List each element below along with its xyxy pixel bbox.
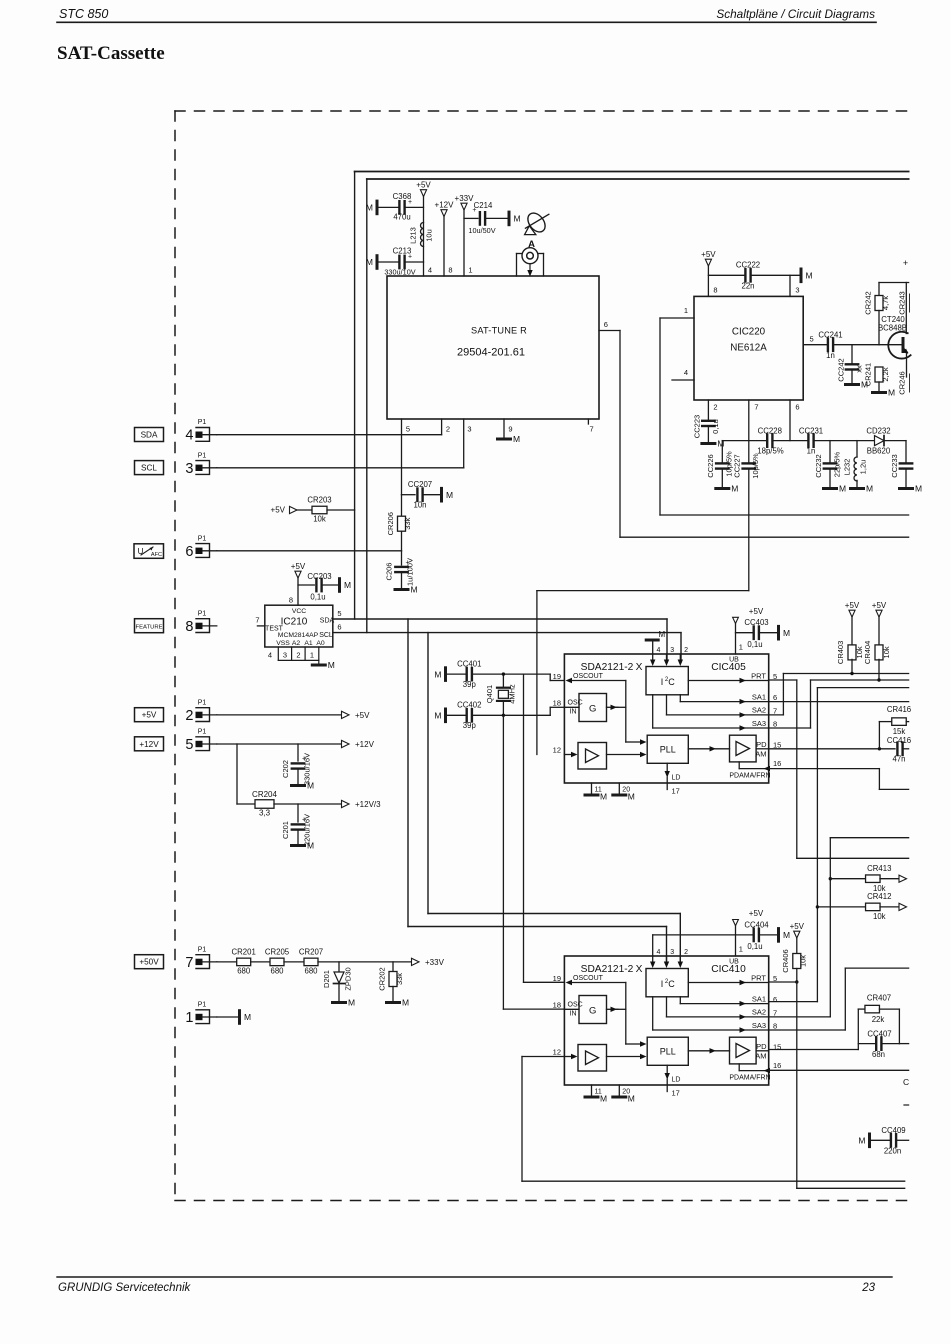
svg-text:1: 1	[739, 643, 743, 652]
svg-text:+5V: +5V	[142, 711, 157, 720]
svg-text:L213: L213	[409, 227, 418, 244]
svg-text:+12V: +12V	[355, 740, 375, 749]
stub CIC220 pin 4	[672, 379, 694, 381]
resistor CR204 3,3	[252, 790, 277, 818]
capacitor C202 330u/16V	[281, 744, 312, 785]
wire +33V to tuner pin 1	[463, 210, 465, 276]
svg-text:M: M	[600, 1094, 607, 1104]
ground M left of C213	[366, 256, 377, 269]
svg-text:xx: xx	[855, 365, 864, 373]
header rule	[57, 21, 876, 23]
svg-text:+5V: +5V	[790, 922, 805, 931]
wire CC241 to transistor base	[833, 344, 879, 346]
connector P1 pin 2 +5V	[135, 699, 217, 724]
svg-text:C202: C202	[281, 760, 290, 778]
svg-text:AM: AM	[755, 1052, 766, 1061]
ground M right of CC403	[779, 626, 791, 639]
svg-text:18: 18	[553, 699, 561, 708]
dashed border frame	[175, 111, 908, 1201]
svg-text:UB: UB	[729, 959, 739, 966]
svg-text:CC203: CC203	[307, 572, 331, 581]
resistor CR416 15k	[879, 705, 911, 749]
svg-text:10u: 10u	[425, 229, 434, 242]
svg-text:M: M	[783, 930, 790, 940]
footer rule	[57, 1276, 892, 1278]
wire crystal node down to CIC410 OSC IN	[503, 715, 564, 1009]
ground M below CR241	[873, 388, 896, 398]
svg-text:10k: 10k	[873, 912, 886, 921]
inductor L213 10u	[409, 223, 434, 247]
wire SCL bus left vertical	[366, 179, 368, 633]
svg-text:G: G	[589, 704, 596, 715]
off-page tick	[904, 1104, 909, 1106]
svg-text:A0: A0	[316, 640, 325, 647]
svg-text:3: 3	[670, 647, 674, 654]
svg-text:17: 17	[672, 787, 680, 796]
wire CIC220 pin 1 loop	[660, 318, 694, 515]
wire tuner pin 9 to ground	[503, 419, 505, 438]
svg-text:M: M	[839, 484, 846, 494]
svg-text:OSCOUT: OSCOUT	[573, 975, 604, 982]
svg-text:CC226: CC226	[706, 454, 715, 477]
svg-text:SCL: SCL	[141, 464, 157, 473]
svg-text:CR204: CR204	[252, 790, 277, 799]
svg-text:CC402: CC402	[457, 701, 481, 710]
svg-text:VCC: VCC	[292, 608, 306, 615]
svg-text:AM: AM	[755, 750, 766, 759]
ground M below CC232	[824, 484, 847, 494]
svg-text:CC233: CC233	[890, 454, 899, 477]
capacitor CC226 10p/5%	[706, 441, 734, 487]
svg-text:P1: P1	[198, 419, 207, 426]
wire +33V output with arrow	[318, 958, 445, 967]
svg-text:M: M	[514, 214, 521, 224]
svg-text:39p: 39p	[463, 721, 477, 730]
svg-text:SAT-Cassette: SAT-Cassette	[57, 43, 165, 64]
svg-text:33k: 33k	[395, 973, 404, 985]
svg-text:CC222: CC222	[736, 261, 760, 270]
stub IC210 pin 7 TEST	[257, 625, 264, 627]
svg-text:CR205: CR205	[265, 948, 290, 957]
ground M right of CC203	[340, 579, 352, 592]
resistor CR201 680	[217, 948, 256, 976]
svg-text:CC407: CC407	[867, 1030, 891, 1039]
IC CIC405 SDA2121-2	[553, 643, 782, 802]
capacitor CC407 68n	[858, 1030, 899, 1060]
svg-text:2: 2	[684, 949, 688, 956]
wire CD232 to CC233	[884, 440, 906, 442]
svg-text:M: M	[628, 1094, 635, 1104]
svg-text:CR243: CR243	[898, 291, 907, 314]
svg-text:SDA2121-2: SDA2121-2	[581, 964, 634, 975]
svg-text:CR407: CR407	[867, 994, 891, 1003]
svg-text:Schaltpläne / Circuit Diagrams: Schaltpläne / Circuit Diagrams	[716, 7, 875, 21]
svg-text:+5V: +5V	[749, 607, 764, 616]
capacitor C214 10u/50V	[464, 201, 508, 235]
svg-text:CC231: CC231	[799, 426, 823, 435]
svg-text:+5V: +5V	[845, 601, 860, 610]
svg-text:CC403: CC403	[744, 618, 768, 627]
connector P1 pin 3 SCL	[135, 452, 217, 477]
wire CIC405 PRT to off-page	[769, 680, 909, 858]
svg-text:C213: C213	[393, 247, 412, 256]
svg-text:P1: P1	[198, 699, 207, 706]
capacitor CC207 10n	[402, 480, 441, 510]
supply +5V arrow at CC403	[733, 607, 764, 624]
svg-text:L232: L232	[843, 459, 852, 476]
svg-text:680: 680	[237, 967, 251, 976]
svg-text:8: 8	[448, 266, 452, 275]
svg-text:P1: P1	[198, 535, 207, 542]
wire +5V to tuner pin 4	[423, 197, 425, 277]
resistor CR203 10k pullup to SDA bus	[271, 496, 355, 524]
ground M at P1 pin 1	[217, 1011, 251, 1024]
svg-text:SA2: SA2	[752, 1008, 766, 1017]
ground M below CR202	[387, 998, 410, 1008]
svg-text:C214: C214	[474, 201, 493, 210]
wire +5V to CIC220 pin 8	[708, 266, 745, 296]
svg-text:CR403: CR403	[836, 641, 845, 664]
svg-text:P1: P1	[198, 452, 207, 459]
svg-text:CC207: CC207	[408, 480, 432, 489]
svg-text:M: M	[402, 998, 409, 1008]
svg-text:3: 3	[467, 425, 471, 434]
ground M below tuner pin 9	[498, 434, 521, 444]
svg-text:SDA2121-2: SDA2121-2	[581, 662, 634, 673]
svg-text:M: M	[446, 490, 453, 500]
svg-text:VSS: VSS	[276, 640, 290, 647]
svg-text:5: 5	[406, 425, 410, 434]
capacitor CC233	[890, 441, 912, 487]
svg-text:4: 4	[185, 428, 193, 444]
supply +5V arrow at CIC220	[701, 250, 716, 266]
svg-text:18p/5%: 18p/5%	[757, 447, 784, 456]
svg-text:SAT-TUNE R: SAT-TUNE R	[471, 326, 527, 336]
svg-text:M: M	[915, 484, 922, 494]
svg-text:+12V: +12V	[139, 740, 159, 749]
capacitor CC222 22n	[736, 261, 760, 291]
svg-text:OSCOUT: OSCOUT	[573, 673, 604, 680]
svg-text:8: 8	[773, 1022, 777, 1031]
resistor CR403 10k pullup	[836, 617, 864, 675]
svg-text:CC241: CC241	[818, 331, 842, 340]
svg-text:PDAMA/FRN: PDAMA/FRN	[729, 1075, 770, 1082]
svg-text:M: M	[858, 1136, 865, 1146]
capacitor CC227 10p/5% in series	[733, 453, 761, 479]
svg-text:SCL: SCL	[319, 632, 333, 639]
svg-text:0,1u: 0,1u	[747, 640, 762, 649]
wire CIC220 pin 7 down to CIC405 pin 12	[537, 400, 749, 755]
svg-text:CC232: CC232	[814, 454, 823, 477]
svg-text:CC416: CC416	[887, 736, 911, 745]
wire CIC405 SA3 to off-page	[769, 680, 909, 728]
IC IC210 MCM2814AP	[255, 605, 341, 647]
svg-text:C206: C206	[385, 563, 394, 581]
wire SCL P1 pin3 to tuner pin 3	[217, 419, 464, 468]
svg-text:LD: LD	[672, 775, 681, 782]
capacitor CC231 1n	[799, 426, 823, 455]
title SAT-Cassette	[57, 43, 165, 64]
wire SDA branch down to CIC410 pin 3	[408, 619, 667, 962]
ground M below C201	[292, 841, 315, 851]
svg-text:5: 5	[337, 609, 341, 618]
svg-text:+5V: +5V	[416, 181, 431, 190]
svg-text:PRT: PRT	[751, 973, 766, 982]
svg-text:220n: 220n	[884, 1147, 901, 1156]
svg-text:22p/5%: 22p/5%	[833, 451, 842, 477]
svg-text:P1: P1	[198, 946, 207, 953]
wire U-AFC to tuner pin 5 net	[217, 550, 402, 552]
ground M right of CC222	[801, 269, 813, 282]
svg-text:SDA: SDA	[141, 431, 158, 440]
svg-text:470u: 470u	[393, 213, 410, 222]
svg-text:4MHz: 4MHz	[508, 684, 517, 704]
zener diode D201 ZPD30	[322, 962, 353, 1001]
diode CD232 BB620	[866, 426, 891, 455]
ground M below CC242	[846, 380, 869, 390]
svg-text:M: M	[244, 1012, 251, 1022]
svg-text:7: 7	[773, 1008, 777, 1017]
svg-text:29504-201.61: 29504-201.61	[457, 347, 525, 359]
footer page number 23	[861, 1282, 875, 1294]
antenna input connector on tuner	[517, 248, 544, 277]
svg-text:A1: A1	[304, 640, 313, 647]
IC CIC410 SDA2121-2	[553, 945, 782, 1104]
satellite dish antenna icon	[524, 210, 548, 250]
svg-text:6: 6	[773, 995, 777, 1004]
svg-text:5: 5	[185, 737, 193, 753]
wire SCL bus horizontal to CIC405 pin 2	[333, 633, 681, 662]
svg-text:+33V: +33V	[425, 958, 445, 967]
ground M below L232	[851, 484, 874, 494]
svg-text:47n: 47n	[892, 755, 905, 764]
ground M left of CC401	[434, 668, 445, 681]
wire +12V to tuner pin 8	[443, 217, 445, 277]
wire SDA bus left vertical	[354, 172, 356, 620]
svg-text:I: I	[661, 677, 664, 687]
svg-text:17: 17	[672, 1089, 680, 1098]
svg-text:0,1u: 0,1u	[747, 942, 762, 951]
svg-text:2,2k: 2,2k	[881, 367, 890, 381]
svg-text:CR241: CR241	[864, 363, 873, 386]
svg-text:PRT: PRT	[751, 671, 766, 680]
capacitor CC403 0,1u	[736, 618, 777, 649]
svg-text:2: 2	[185, 708, 193, 724]
svg-text:CR416: CR416	[887, 705, 911, 714]
svg-text:ZPD30: ZPD30	[344, 967, 353, 990]
svg-text:M: M	[888, 388, 895, 398]
svg-text:X: X	[636, 964, 643, 975]
svg-text:7: 7	[590, 425, 594, 434]
svg-text:M: M	[434, 711, 441, 721]
svg-text:+12V/3: +12V/3	[355, 800, 381, 809]
wire CIC410 PRT net	[769, 980, 799, 1188]
svg-text:6: 6	[337, 623, 341, 632]
IC210 ground pins 4 3 2 1 strap	[268, 647, 319, 664]
ground M right of CC207	[442, 488, 454, 501]
svg-text:CR242: CR242	[864, 291, 873, 314]
svg-text:SA1: SA1	[752, 692, 766, 701]
wire +5V to IC210 VCC pin 8	[289, 578, 314, 605]
svg-text:680: 680	[270, 967, 284, 976]
svg-text:3: 3	[185, 461, 193, 477]
off-page label CR243	[898, 291, 910, 314]
wire pin 1 net to right edge	[660, 514, 909, 516]
svg-text:19: 19	[553, 672, 561, 681]
svg-text:NE612A: NE612A	[730, 343, 767, 354]
svg-text:P1: P1	[198, 729, 207, 736]
connector P1 pin 7 +50V	[135, 946, 217, 971]
ground M left of C368	[366, 201, 377, 214]
svg-text:8: 8	[773, 720, 777, 729]
svg-text:3: 3	[283, 651, 287, 660]
svg-text:6: 6	[604, 320, 608, 329]
svg-text:7: 7	[773, 706, 777, 715]
wire CIC405 SA1 to off-page	[769, 701, 909, 703]
svg-text:D201: D201	[322, 970, 331, 988]
svg-text:+33V: +33V	[455, 194, 475, 203]
svg-text:+12V: +12V	[435, 201, 455, 210]
supply +33V arrow above tuner	[455, 194, 475, 210]
svg-text:CD232: CD232	[866, 426, 890, 435]
svg-text:SDA: SDA	[320, 618, 335, 625]
svg-text:C368: C368	[393, 192, 412, 201]
svg-text:7: 7	[255, 616, 259, 625]
svg-text:G: G	[589, 1006, 596, 1017]
svg-text:33k: 33k	[403, 517, 412, 529]
svg-text:5: 5	[810, 335, 814, 344]
ground M above CIC405 pin 4	[646, 630, 665, 654]
svg-text:39p: 39p	[463, 680, 477, 689]
svg-text:1n: 1n	[807, 447, 816, 456]
ground M below CC233	[900, 484, 923, 494]
ground M below CC223	[702, 439, 725, 449]
supply +5V arrow above tuner	[416, 181, 431, 197]
wire CIC410 SA3 riser to off-page	[769, 968, 909, 1030]
svg-text:M: M	[366, 257, 373, 267]
ground M right of CC404	[779, 929, 791, 942]
svg-text:M: M	[731, 484, 738, 494]
svg-text:0,1u: 0,1u	[310, 593, 325, 602]
svg-text:8: 8	[185, 619, 193, 635]
wire CC222 to CIC220 pin 3 and ground	[751, 275, 800, 296]
resistor CR412 10k to off-page arrow	[816, 892, 907, 921]
svg-text:CR202: CR202	[378, 967, 387, 990]
wire collector supply to off-page CR243	[879, 258, 909, 283]
wire +12V branch down to CR204	[237, 744, 256, 804]
wire IF line to right edge	[620, 536, 909, 538]
svg-text:FEATURE: FEATURE	[135, 625, 162, 631]
svg-text:M: M	[783, 628, 790, 638]
ground M right of C214	[509, 212, 521, 225]
svg-text:+50V: +50V	[139, 958, 159, 967]
ground M below CC226	[716, 484, 739, 494]
svg-text:330u/10V: 330u/10V	[384, 268, 415, 277]
wire PRT net bottom to off-page	[797, 1187, 905, 1189]
svg-text:CC242: CC242	[837, 358, 846, 381]
wire CIC405 pin 16 to off-page	[769, 769, 909, 790]
wire SCL branch down to CIC410 pin 2	[428, 633, 680, 962]
svg-text:+: +	[903, 258, 908, 268]
capacitor CC228 18p/5%	[757, 426, 784, 455]
svg-text:2: 2	[446, 425, 450, 434]
svg-text:6: 6	[773, 693, 777, 702]
svg-text:M: M	[806, 271, 813, 281]
wire +12V/3 output with arrow	[274, 800, 381, 809]
capacitor C201 220u/16V	[281, 804, 312, 846]
svg-text:M: M	[366, 203, 373, 213]
transistor CT240 BC848B	[878, 283, 911, 378]
svg-text:+5V: +5V	[291, 562, 306, 571]
svg-text:1: 1	[185, 1010, 193, 1026]
capacitor CC203 0,1u	[307, 572, 338, 602]
svg-text:15k: 15k	[893, 727, 906, 736]
svg-text:7: 7	[754, 403, 758, 412]
svg-text:1n: 1n	[826, 351, 835, 360]
svg-text:CC223: CC223	[693, 415, 702, 438]
svg-text:STC 850: STC 850	[59, 7, 108, 21]
capacitor CC402 39p	[447, 701, 503, 731]
footer text GRUNDIG Servicetechnik	[58, 1282, 192, 1294]
svg-text:10p/5%: 10p/5%	[751, 453, 760, 479]
svg-text:+5V: +5V	[355, 711, 370, 720]
svg-text:CR203: CR203	[307, 496, 331, 505]
ground M left of CC409	[858, 1134, 869, 1147]
svg-text:M: M	[307, 841, 314, 851]
svg-text:19: 19	[553, 974, 561, 983]
svg-text:AFC: AFC	[151, 552, 162, 558]
ground M below IC210	[312, 660, 335, 670]
svg-text:GRUNDIG Servicetechnik: GRUNDIG Servicetechnik	[58, 1282, 192, 1294]
svg-text:1: 1	[739, 945, 743, 954]
svg-text:12: 12	[553, 1048, 561, 1057]
svg-text:M: M	[600, 792, 607, 802]
svg-text:1: 1	[684, 306, 688, 315]
supply +12V arrow above tuner	[435, 201, 455, 217]
svg-text:M: M	[411, 585, 418, 595]
svg-text:PLL: PLL	[660, 1047, 676, 1057]
svg-text:SA1: SA1	[752, 994, 766, 1003]
capacitor C213 330u/10V	[379, 247, 424, 277]
svg-text:4: 4	[657, 647, 661, 654]
wire bottom loop to CIC410 pin 12	[522, 1057, 905, 1182]
wire CIC410 pin 4 to +5V node	[653, 935, 736, 956]
svg-text:C: C	[668, 677, 675, 687]
svg-text:CC228: CC228	[758, 426, 782, 435]
svg-text:2: 2	[296, 651, 300, 660]
svg-text:CC409: CC409	[881, 1126, 905, 1135]
wire CIC405 SA2 to off-page	[769, 674, 909, 715]
svg-text:4: 4	[268, 651, 272, 660]
svg-text:P1: P1	[198, 1002, 207, 1009]
resistor CR406 10k pullup	[781, 938, 808, 982]
svg-text:A2: A2	[292, 640, 301, 647]
svg-text:IC210: IC210	[281, 617, 308, 628]
svg-text:CR406: CR406	[781, 949, 790, 972]
svg-text:IN: IN	[570, 709, 577, 716]
svg-text:M: M	[434, 669, 441, 679]
svg-text:10k: 10k	[313, 515, 326, 524]
svg-text:10n: 10n	[413, 501, 426, 510]
svg-text:SA3: SA3	[752, 719, 766, 728]
svg-text:LD: LD	[672, 1077, 681, 1084]
wire tuner pin 6 output	[599, 331, 620, 538]
svg-text:C201: C201	[281, 821, 290, 839]
svg-text:3,3: 3,3	[259, 809, 271, 818]
svg-text:2: 2	[684, 647, 688, 654]
wire CIC410 SA1 riser to off-page	[769, 688, 909, 1002]
capacitor CC416 47n	[887, 736, 911, 764]
